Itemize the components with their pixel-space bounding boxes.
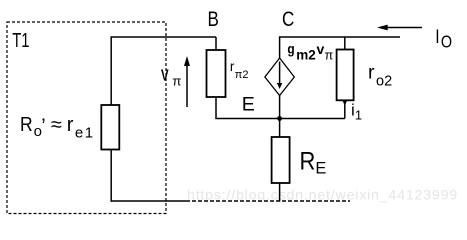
svg-text:B: B	[208, 8, 219, 31]
svg-text:π2: π2	[235, 69, 249, 81]
svg-text:C: C	[282, 8, 294, 31]
svg-text:g: g	[287, 41, 294, 57]
svg-text:r: r	[67, 114, 74, 136]
svg-text:e1: e1	[75, 125, 95, 142]
svg-text:R: R	[20, 113, 33, 135]
svg-text:’: ’	[41, 116, 45, 138]
svg-text:https://blog.csdn.net/weixin_4: https://blog.csdn.net/weixin_44123999	[187, 188, 458, 204]
svg-text:R: R	[300, 147, 316, 175]
svg-text:o2: o2	[376, 74, 392, 90]
svg-text:≈: ≈	[51, 114, 62, 136]
svg-text:π: π	[325, 48, 334, 62]
svg-text:O: O	[441, 32, 452, 52]
svg-text:E: E	[315, 159, 326, 177]
svg-text:V: V	[161, 67, 169, 84]
svg-text:π: π	[172, 73, 181, 88]
svg-text:m2: m2	[296, 48, 316, 63]
svg-text:v: v	[317, 41, 325, 57]
svg-text:I: I	[435, 25, 439, 47]
svg-text:E: E	[242, 94, 255, 116]
svg-text:r: r	[368, 61, 375, 83]
svg-text:1: 1	[355, 108, 362, 123]
svg-text:T1: T1	[12, 28, 29, 51]
